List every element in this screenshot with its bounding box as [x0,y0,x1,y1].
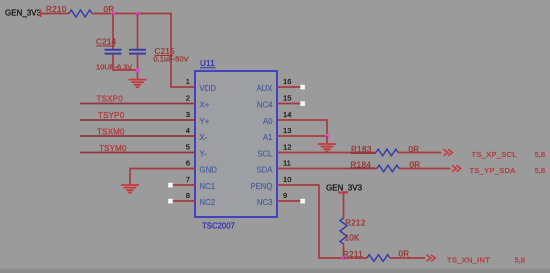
resistor R184 [351,161,421,172]
wire SDA pin 11 to R184 [277,168,377,170]
wire GND pin 6 [130,169,195,185]
svg-text:5,8: 5,8 [535,150,545,159]
svg-text:14: 14 [283,110,291,119]
wire TSXP0 to pin 2 [80,103,195,105]
pin 14 number/name A0 [263,110,292,126]
svg-text:Y+: Y+ [200,117,210,126]
svg-text:NC4: NC4 [257,101,273,110]
svg-text:A1: A1 [263,133,273,142]
svg-text:TSYP0: TSYP0 [98,111,125,120]
pin 16 no-connect stub [277,85,305,90]
off-page connector TS_YP_SDA [452,165,545,175]
svg-text:X+: X+ [200,101,210,110]
svg-text:AUX: AUX [256,84,273,93]
op-amp / IC U11 box [195,59,277,231]
svg-text:0.1uF-50V: 0.1uF-50V [154,55,189,64]
resistor R183 [351,145,419,156]
svg-text:X-: X- [200,133,208,142]
svg-text:R212: R212 [345,219,366,228]
pin 6 number/name GND [186,159,217,175]
svg-text:7: 7 [186,175,190,184]
svg-text:Y-: Y- [200,150,207,159]
svg-text:NC2: NC2 [200,198,216,207]
pin 15 no-connect stub [277,101,305,106]
pin 9 number/name NC3 [257,191,287,207]
junction at ground node [136,68,140,72]
svg-text:TS_XN_INT: TS_XN_INT [447,256,490,265]
svg-text:5,8: 5,8 [535,166,545,175]
wire TSXM0 to pin 4 [80,135,195,137]
resistor R211 [343,250,409,262]
wire C215 bottom to ground [137,55,139,80]
wire A1 pin 13 [277,135,327,137]
wire TSYP0 to pin 3 [80,119,195,121]
svg-text:VDD: VDD [200,84,217,93]
pin 8 number/name NC2 [186,191,215,207]
svg-text:R210: R210 [46,5,67,14]
wire R210 to VDD pin 1 [92,14,195,88]
pin 7 number/name NC1 [186,175,215,191]
svg-text:TS_XP_SCL: TS_XP_SCL [472,150,517,159]
resistor R212 [340,218,366,244]
svg-text:R211: R211 [343,250,363,259]
svg-text:10: 10 [283,175,291,184]
wire junction to R211 [344,257,368,259]
pin 10 number/name PENQ [250,175,291,191]
svg-text:15: 15 [283,94,291,103]
wire SCL pin 12 to R183 [277,152,376,154]
wire R184 to off-page [399,168,451,170]
pin 15 number/name NC4 [257,94,292,110]
wire PENQ pin 10 down to bottom rail [277,185,344,258]
power symbol GEN_3V3 (bottom) [326,184,363,219]
wire C214 bottom to ground node [113,55,138,71]
capacitor C215 [129,47,189,64]
junction at C215 tap [136,12,140,16]
svg-text:13: 13 [283,126,291,135]
capacitor C214 [96,38,132,72]
svg-text:TSXP0: TSXP0 [97,95,124,104]
svg-text:NC1: NC1 [200,182,216,191]
ground (decoupling caps) [129,80,147,88]
ground (pin 6) [121,185,139,193]
svg-text:NC3: NC3 [257,198,273,207]
pin 4 number/name X- [186,126,208,142]
svg-text:GEN_3V3: GEN_3V3 [5,9,42,18]
junction R212 / bottom rail [342,256,346,260]
svg-text:PENQ: PENQ [250,182,272,191]
svg-text:5,8: 5,8 [515,256,525,265]
junction at C214 tap [111,12,115,16]
svg-text:16: 16 [283,77,291,86]
wire top to C215 [137,14,139,50]
svg-text:4: 4 [186,126,190,135]
wire R212 to bottom rail [343,244,345,258]
svg-text:SCL: SCL [257,150,273,159]
pin 16 number/name AUX [256,77,291,93]
svg-text:SDA: SDA [256,166,273,175]
ground (A0/A1) [318,144,336,152]
svg-text:2: 2 [186,94,190,103]
svg-text:12: 12 [283,143,291,152]
svg-text:R183: R183 [351,145,372,154]
pin 5 number/name Y- [186,143,207,159]
wire top to C214 [112,14,114,50]
svg-text:TSC2007: TSC2007 [202,222,235,231]
svg-text:11: 11 [283,159,291,168]
pin 9 no-connect stub [277,199,305,204]
svg-text:U11: U11 [200,59,215,68]
pin 12 number/name SCL [257,143,291,159]
pin 1 number/name VDD [186,77,217,93]
svg-text:1: 1 [186,77,190,86]
wire junction to ground [326,136,328,144]
svg-text:GEN_3V3: GEN_3V3 [326,184,363,193]
junction A0/A1 [325,134,329,138]
wire A0 pin 14 [277,120,327,136]
svg-text:TS_YP_SDA: TS_YP_SDA [470,166,516,175]
svg-text:9: 9 [283,191,287,200]
pin 11 number/name SDA [256,159,290,175]
wire R211 to off-page [390,257,425,259]
power symbol GEN_3V3 (top left) [5,9,42,18]
svg-text:8: 8 [186,191,190,200]
resistor R210 [46,5,114,17]
pin 7 no-connect stub [168,183,195,188]
svg-text:GND: GND [200,166,218,175]
wire GEN_3V3 to R210 [41,13,69,15]
off-page connector TS_XP_SCL [444,149,546,159]
pin 8 no-connect stub [168,199,195,204]
svg-text:3: 3 [186,110,190,119]
wire R183 to off-page [398,152,442,154]
pin 2 number/name X+ [186,94,210,110]
svg-text:A0: A0 [263,117,273,126]
wire TSYM0 to pin 5 [80,152,195,154]
pin 3 number/name Y+ [186,110,210,126]
svg-text:6: 6 [186,159,190,168]
pin 13 number/name A1 [263,126,292,142]
svg-text:10K: 10K [345,234,360,243]
svg-text:5: 5 [186,143,190,152]
svg-text:C214: C214 [96,38,117,47]
off-page connector TS_XN_INT [427,255,526,265]
